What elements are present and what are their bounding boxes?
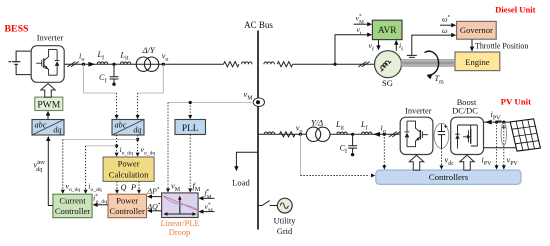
arrow v_f down [376,45,380,50]
node i_o_dq branch [115,144,118,147]
inverter U2 (PV inverter) box [400,117,433,154]
node v_t tap junction [333,63,336,66]
measurement tap i_o gray route [84,64,117,93]
droop PLE curve (blue) [164,197,198,210]
resistor R1 (line impedance left) [224,62,239,67]
signal i_o dotted into abc-dq2 [116,93,118,116]
arrow v_M* into AVR [367,22,372,26]
Current Controller block [53,194,92,218]
wire v_t from feeder tap to AVR [335,35,369,64]
svg-text:Q: Q [121,183,127,192]
arrow v_M into PLL [188,115,192,119]
wire bus to SG [293,63,376,65]
svg-text:Current: Current [59,196,86,206]
arrow v_o_dq into Current Controller [61,190,65,194]
transformer T2 Y/delta [306,127,320,141]
gate drive hollow arrow Controllers to U3 [460,155,475,170]
PV panel (solar array) [510,119,540,151]
Governor block [457,21,497,39]
synchronous generator SG [375,51,402,78]
svg-text:Calculation: Calculation [109,170,149,180]
inductor L_it (BESS coupling) [120,62,131,64]
svg-text:BESS: BESS [5,24,30,35]
capacitor C_f (BESS filter) [110,64,119,83]
signal P dotted to Power Controller [138,181,140,190]
wire hop marks on PV wire [497,121,501,122]
shaft SG to Engine [401,60,455,66]
PV string measurement ellipse [501,123,506,146]
signal i_PV dotted [496,122,498,166]
svg-text:abc: abc [115,121,127,130]
diode D1 inside U1 [55,50,60,76]
inverter U1 (BESS inverter) box [31,46,64,83]
svg-text:P: P [130,183,136,192]
inductor L_f (PV) [362,132,373,134]
signal delta-P* droop to Power Controller [150,196,161,198]
IGBT Q1 inside U1 [36,50,57,76]
svg-text:Inverter: Inverter [405,106,432,115]
arrow omega into Governor [451,33,456,37]
svg-text:Linear/PLE: Linear/PLE [160,219,199,228]
svg-text:dq: dq [53,126,61,135]
load feeder wire [236,152,258,167]
arrow P into Power Controller [137,190,141,194]
wire v_f AVR to SG [378,40,380,47]
node i_PV tap [495,121,498,124]
arrow omega* into Governor [451,23,456,27]
current arrow i_o (PV, toward grid) [373,132,380,137]
signal v_o dotted into abc-dq2 [137,93,139,116]
capacitor C_f (PV filter) [348,134,357,152]
PWM block [35,97,63,110]
svg-text:Controller: Controller [110,206,145,216]
svg-text:Controllers: Controllers [429,172,469,182]
wire v_M* reference into AVR [354,23,369,25]
svg-text:dq: dq [133,126,141,135]
transform block abc-dq #2 (measurement) [112,120,144,136]
arrow throttle into Engine [470,47,474,52]
battery B1 (BESS source) [9,51,31,75]
utility switch and wire [258,201,277,206]
current arrow i_PV [485,120,492,125]
boost converter U3 box [451,117,484,154]
node after L_it junction (PV) [351,133,354,136]
node v_PV tap [502,121,505,124]
signal i_o_dq dotted drop [85,146,87,191]
signal v_o_dq gray route to Current Controller [63,138,138,140]
3-phase marker on PV inverter output [389,132,400,137]
wire boost to PV panel (+) [484,121,512,123]
signal v_M gray route from bus node [168,102,254,104]
svg-text:PV Unit: PV Unit [501,97,531,107]
inductor L_f (BESS filter) [97,62,108,64]
signal i_o_dq gray route to Current Controller [86,145,117,147]
node after L_f junction [112,63,115,66]
Power Controller block [108,194,147,218]
current arrow i_o [88,62,95,67]
droop vertical axis [179,198,181,214]
svg-text:abc: abc [35,121,47,130]
AC bus bar [257,31,259,230]
wire PV panel return (-) [484,147,517,149]
signal i_o_dq* Power to Current Controller [96,204,108,206]
inductor L1 (line impedance left) [242,62,253,64]
node PLL branch on v_M line [189,101,192,104]
droop linear curve (red) [164,196,199,211]
svg-text:Governor: Governor [460,25,493,35]
arrow v_dc into Controllers [440,165,444,169]
arrow abc-dq1 to PWM [47,114,49,119]
arrow v_o into abc-dq2 [136,115,140,119]
arrow v_t into AVR [367,33,372,37]
svg-text:Power: Power [118,159,140,169]
throttle wire Governor to Engine [471,39,473,48]
inductor L2 (line impedance right) [264,62,275,64]
inductor L3 (PV feeder) [264,132,275,134]
3-phase marker on SG feeder [358,62,369,67]
wire omega* reference [440,24,453,26]
signal v_M dotted to droop [167,103,169,190]
MOSFET Q3 inside U3 [458,125,478,146]
arrow i_o into Controllers [382,165,386,169]
signal i_o_dq dotted abc-dq2 to Power Calculation [116,135,118,154]
signal v_M* reference into droop [202,211,215,213]
diode D3 inside U3 [455,125,460,149]
Power Calculation block [103,157,154,181]
arrow f_M into droop [188,188,192,192]
measurement tap v_o gray route [138,64,164,93]
gate drive hollow arrow PWM to U1 [41,84,56,98]
signal v_PV dotted [503,122,505,166]
arrow i_o into abc-dq2 [115,115,119,119]
svg-text:Grid: Grid [277,227,293,236]
signal i_o dotted into Controllers top [383,134,385,166]
signal v_dc dotted [441,148,443,166]
svg-text:Droop: Droop [169,228,190,237]
transformer T1 delta/Y [136,57,150,71]
svg-text:Inverter: Inverter [37,33,64,42]
svg-text:AC Bus: AC Bus [244,20,273,30]
arrow v_PV into Controllers [502,165,506,169]
signal v_dq_inv Current Controller to abc-dq1 [48,140,53,206]
svg-text:Engine: Engine [465,57,490,67]
Engine block [455,52,500,71]
svg-text:Load: Load [232,178,250,188]
DC link capacitor C_dc [434,123,449,148]
load arrow [234,166,238,171]
signal v_M dotted into PLL [189,103,191,116]
svg-text:Controller: Controller [55,206,90,216]
AVR block [372,20,402,39]
transform block abc-dq #1 (modulation) [32,120,64,136]
Controllers block [376,170,521,184]
arrow Q into Power Controller [115,190,119,194]
arrow i_o_dq into Power Calculation [115,153,119,157]
signal v_o_dq dotted abc-dq2 to Power Calculation [137,135,139,154]
IGBT Q2 inside U2 [407,121,428,147]
arrow v_o into Controllers [371,174,375,178]
utility grid source G1 [277,198,292,213]
svg-text:Throttle Position: Throttle Position [475,42,528,51]
node i_o junction (PV) [383,133,386,136]
signal f_M dotted PLL to droop [189,135,191,190]
diode D2 inside U2 [405,121,410,147]
Linear/PLE Droop block [162,193,199,218]
droop horizontal axis [166,213,195,215]
arrow v_o_dq into Power Calculation [136,153,140,157]
arrow v_M into droop [166,188,170,192]
node v_o junction (BESS) [162,63,165,66]
signal Q dotted to Power Controller [116,181,118,190]
inductor L_it (PV) [337,132,348,134]
PLL block [175,120,206,135]
svg-text:Utility: Utility [274,217,297,226]
arrow i_PV into Controllers [495,165,499,169]
svg-text:PWM: PWM [37,100,60,111]
wire i_f SG to AVR [395,43,397,51]
resistor R2 (line impedance right) [277,62,293,67]
torque T_m rotation arrow [425,51,439,75]
signal delta-Q* droop to Power Controller [150,210,161,212]
svg-text:DC/DC: DC/DC [452,106,478,115]
svg-text:PLL: PLL [182,124,199,134]
signal v_o to Controllers (gray drop) [299,134,301,175]
governor speed tap (shaft sensor) [407,35,453,57]
arrow i_o_dq into Current Controller [84,190,88,194]
svg-text:Power: Power [116,196,138,206]
signal v_o dotted into Controllers [300,175,369,177]
svg-text:Diesel Unit: Diesel Unit [495,5,535,15]
svg-text:ω: ω [442,26,448,35]
svg-text:Y/Δ: Y/Δ [311,118,323,128]
resistor R3 (PV feeder) [280,132,296,137]
node v_o_dq branch [136,138,139,141]
node v_M (bus measurement node) [253,98,264,107]
signal f_M* reference into droop [202,197,215,199]
wire T2 to PV inverter [330,133,400,135]
arrow v_dq_inv into abc-dq1 [46,136,50,141]
arrow i_f up into AVR [394,40,398,45]
node v_o junction (PV) [299,133,302,136]
svg-text:AVR: AVR [378,26,397,36]
node i_o junction (BESS) [82,63,85,66]
svg-text:Δ/Y: Δ/Y [142,45,156,55]
wire U1 output to AC bus row [64,63,223,65]
gate drive hollow arrow Controllers to U2 [409,155,424,170]
3-phase marker on U1 output [67,62,78,67]
svg-text:SG: SG [382,78,393,88]
signal v_o_dq dotted drop [62,139,64,190]
wire bus to PV transformer [258,133,306,135]
